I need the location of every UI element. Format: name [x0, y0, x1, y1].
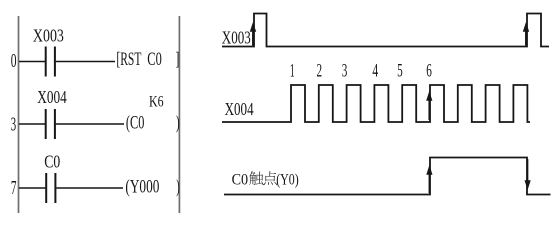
wire rung2 right — [56, 123, 124, 125]
svg-text:3: 3 — [11, 114, 16, 135]
svg-text:X004: X004 — [225, 99, 254, 119]
svg-text:X003: X003 — [222, 28, 251, 48]
svg-text:(Y000: (Y000 — [125, 178, 159, 198]
svg-text:(C0: (C0 — [126, 114, 144, 134]
wire rung1 left — [19, 61, 45, 63]
svg-text:C0: C0 — [232, 171, 249, 188]
svg-text:C0: C0 — [44, 151, 60, 171]
svg-text:2: 2 — [317, 61, 323, 82]
svg-text:1: 1 — [290, 61, 295, 82]
arrow up C0 rising edge — [426, 165, 432, 193]
coil Y000 — [125, 178, 179, 198]
svg-text:): ) — [176, 178, 179, 198]
left power rail — [18, 16, 20, 213]
arrow up X004 pulse 6 rising edge — [426, 91, 432, 120]
svg-text:(Y0): (Y0) — [276, 171, 299, 188]
svg-text:3: 3 — [342, 61, 348, 82]
waveform X003 — [222, 14, 549, 47]
waveform C0 contact — [224, 158, 551, 195]
svg-text:): ) — [176, 114, 180, 134]
svg-text:7: 7 — [11, 178, 17, 199]
arrow up X003 first rising edge — [250, 22, 256, 46]
wire rung1 right — [56, 61, 115, 63]
wire rung3 right — [56, 187, 123, 189]
wire rung3 left — [19, 187, 45, 189]
svg-text:4: 4 — [372, 61, 378, 82]
wire rung2 left — [19, 123, 45, 125]
arrow up X003 second rising edge — [523, 22, 529, 46]
svg-text:6: 6 — [426, 61, 432, 82]
svg-text:]: ] — [176, 50, 180, 70]
contact C0 — [46, 173, 55, 203]
svg-text:0: 0 — [11, 51, 17, 72]
svg-text:X003: X003 — [33, 26, 64, 46]
arrow down C0 falling edge — [525, 159, 531, 190]
waveform X004 — [222, 85, 530, 122]
pulse numbers 1-6 — [290, 61, 432, 82]
svg-text:C0: C0 — [147, 50, 162, 70]
contact X003 — [46, 47, 55, 77]
instruction RST C0 — [116, 50, 179, 70]
right power rail — [178, 16, 180, 213]
svg-text:[RST: [RST — [116, 50, 141, 70]
contact X004 — [46, 109, 55, 139]
label C0 contact (Y0) — [232, 171, 299, 188]
svg-text:5: 5 — [397, 61, 403, 82]
svg-text:K6: K6 — [149, 93, 164, 110]
svg-text:X004: X004 — [37, 87, 67, 107]
coil C0 — [126, 114, 180, 134]
